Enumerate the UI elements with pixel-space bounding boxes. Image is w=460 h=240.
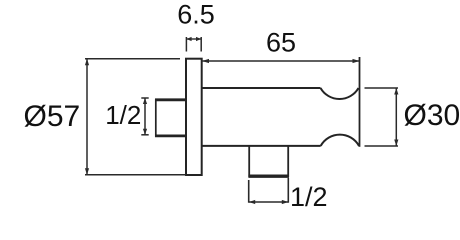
inlet port 1/2 left edge [155,99,157,137]
dim 30 bottom arrow [394,140,398,147]
dim 57 top extension line [85,58,180,60]
dim 6.5 right arrow [196,37,201,41]
outlet port right edge [287,146,289,177]
dim 1/2 inlet top tick [141,97,148,99]
dim 30 top arrow [394,88,398,95]
dim 1/2 outlet right tick [287,178,289,203]
dim 1/2 outlet left arrow [249,200,256,204]
inlet port thread bottom edge [155,134,186,137]
holder groove bottom arc [321,135,359,146]
dim 57 dimension line [86,59,88,175]
bracket body top edge [202,87,321,89]
bracket body bottom edge [202,145,321,147]
dim 1/2 inlet bracket line [144,98,146,135]
outlet port thread bottom edge [248,174,289,177]
dim 57 bottom arrow [85,168,89,175]
svg-text:1/2: 1/2 [105,100,141,130]
dim 6.5 left arrow [186,37,191,41]
holder end cap with 65 extension line [359,57,361,147]
svg-text:65: 65 [266,27,296,57]
dim 1/2 outlet dimension line [249,201,289,203]
dim 30 dimension line [395,88,397,146]
dim 57 bottom extension line [85,174,186,176]
dim 65 left arrow [202,59,209,63]
svg-text:1/2: 1/2 [290,182,328,212]
dim 1/2 inlet bottom tick [141,134,148,136]
dim 57 top arrow [85,59,89,66]
wall flange plate [186,59,202,175]
dim 65 right arrow [353,59,360,63]
svg-text:Ø57: Ø57 [24,100,81,133]
holder groove top arc [321,88,359,99]
outlet port left edge [248,146,250,177]
dim 6.5 dimension line [186,38,201,40]
dim 1/2 inlet bottom arrow [143,129,147,135]
svg-text:Ø30: Ø30 [404,99,460,132]
dim 1/2 inlet top arrow [143,98,147,104]
svg-text:6.5: 6.5 [177,0,215,30]
dim 30 top extension line [365,87,399,89]
dim 30 bottom extension line [365,145,399,147]
dim 1/2 outlet right arrow [282,200,289,204]
inlet port thread top edge [155,98,186,101]
dim 65 dimension line [202,60,360,62]
dim 6.5 extension lines [186,37,201,52]
dim 1/2 outlet left tick [248,180,250,203]
